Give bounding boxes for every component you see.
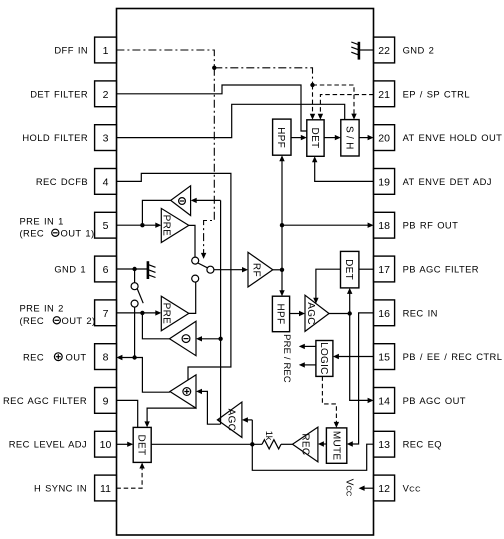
svg-text:PB AGC FILTER: PB AGC FILTER	[403, 264, 479, 275]
svg-text:REC EQ: REC EQ	[403, 439, 442, 450]
svg-text:S / H: S / H	[343, 126, 354, 150]
svg-text:EP / SP CTRL: EP / SP CTRL	[403, 88, 470, 99]
svg-text:15: 15	[378, 352, 390, 364]
svg-text:8: 8	[103, 352, 109, 364]
svg-text:5: 5	[103, 220, 109, 232]
svg-text:(REC: (REC	[20, 228, 45, 239]
svg-text:HOLD FILTER: HOLD FILTER	[22, 132, 88, 143]
svg-text:12: 12	[378, 483, 390, 495]
svg-text:4: 4	[103, 176, 109, 188]
svg-text:HPF: HPF	[275, 127, 286, 148]
svg-text:7: 7	[103, 308, 109, 320]
svg-text:PB AGC OUT: PB AGC OUT	[403, 395, 466, 406]
svg-text:OUT 2): OUT 2)	[62, 315, 96, 326]
svg-text:9: 9	[103, 395, 109, 407]
svg-text:LOGIC: LOGIC	[318, 342, 329, 375]
svg-text:PRE / REC: PRE / REC	[282, 334, 293, 383]
svg-text:DET FILTER: DET FILTER	[30, 88, 88, 99]
svg-text:REC LEVEL ADJ: REC LEVEL ADJ	[9, 439, 87, 450]
svg-text:AGC: AGC	[226, 409, 237, 432]
svg-text:GND 1: GND 1	[54, 264, 86, 275]
svg-text:1k: 1k	[264, 431, 274, 441]
svg-text:22: 22	[378, 45, 390, 57]
svg-text:DFF IN: DFF IN	[54, 45, 88, 56]
svg-text:14: 14	[378, 395, 390, 407]
svg-text:AT ENVE DET ADJ: AT ENVE DET ADJ	[403, 176, 492, 187]
svg-text:PB / EE / REC CTRL: PB / EE / REC CTRL	[403, 351, 503, 362]
svg-text:PRE IN 2: PRE IN 2	[20, 303, 64, 314]
svg-text:VCC: VCC	[403, 483, 421, 494]
svg-text:11: 11	[100, 483, 111, 495]
svg-text:6: 6	[103, 264, 109, 276]
svg-text:21: 21	[378, 89, 390, 101]
svg-text:DET: DET	[343, 259, 354, 280]
svg-text:REC DCFB: REC DCFB	[36, 176, 88, 187]
svg-text:(REC: (REC	[20, 315, 45, 326]
svg-text:OUT 1): OUT 1)	[61, 228, 95, 239]
svg-text:3: 3	[103, 133, 109, 145]
svg-text:10: 10	[100, 439, 112, 451]
svg-text:H SYNC IN: H SYNC IN	[34, 483, 87, 494]
svg-text:OUT: OUT	[66, 351, 87, 362]
svg-text:GND 2: GND 2	[403, 45, 435, 56]
svg-text:REC: REC	[23, 351, 44, 362]
svg-text:PRE IN 1: PRE IN 1	[20, 216, 64, 227]
svg-text:RF: RF	[251, 263, 262, 277]
svg-text:20: 20	[378, 133, 390, 145]
svg-text:PRE: PRE	[161, 215, 172, 236]
svg-text:PRE: PRE	[161, 303, 172, 324]
svg-text:DET: DET	[309, 128, 320, 149]
svg-text:16: 16	[378, 308, 390, 320]
svg-text:PB RF OUT: PB RF OUT	[403, 220, 459, 231]
svg-text:17: 17	[378, 264, 390, 276]
svg-text:VCC: VCC	[344, 479, 355, 497]
svg-text:18: 18	[378, 220, 390, 232]
svg-text:2: 2	[103, 89, 109, 101]
svg-text:MUTE: MUTE	[330, 431, 341, 461]
svg-text:1: 1	[103, 45, 109, 57]
svg-text:AGC: AGC	[305, 302, 316, 325]
svg-text:REC IN: REC IN	[403, 307, 438, 318]
svg-text:13: 13	[378, 439, 390, 451]
svg-text:REC AGC FILTER: REC AGC FILTER	[3, 395, 87, 406]
svg-text:AT ENVE HOLD OUT: AT ENVE HOLD OUT	[403, 132, 503, 143]
svg-text:HPF: HPF	[274, 303, 285, 324]
svg-text:DET: DET	[136, 434, 147, 455]
svg-text:19: 19	[378, 176, 390, 188]
svg-text:REC: REC	[299, 433, 310, 455]
